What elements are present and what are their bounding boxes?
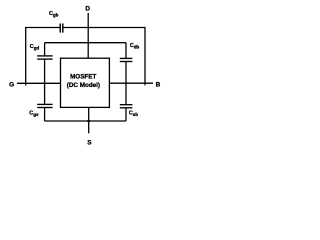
wire: gate branch vertical upper (to Cgd top plate) [44, 43, 46, 56]
MOSFET (DC Model) box [61, 58, 110, 107]
capacitor C_gs plates [37, 104, 52, 107]
svg-text:B: B [156, 81, 161, 88]
svg-text:Cgb: Cgb [49, 11, 59, 18]
svg-text:MOSFET: MOSFET [70, 73, 96, 80]
svg-text:S: S [87, 140, 92, 147]
capacitor C_sb plates [120, 105, 133, 108]
wire: drain terminal vertical [87, 13, 89, 58]
wire: gate horizontal line [17, 82, 61, 84]
wire: bottom source line [45, 120, 126, 122]
capacitor C_db plates [120, 58, 133, 61]
svg-text:Cgs: Cgs [29, 110, 39, 117]
wire: top gate-bulk line right segment [63, 28, 145, 86]
wire: top gate-bulk line left segment [26, 28, 60, 84]
wire: drain link line (Cgd to Cdb through D) [45, 42, 126, 44]
svg-text:Csb: Csb [129, 111, 138, 118]
wire: gate branch vertical middle (Cgd to Cgs) [44, 59, 46, 104]
svg-text:Cdb: Cdb [130, 43, 140, 50]
text MOSFET (DC Model) [67, 73, 100, 89]
wire: bulk branch vertical middle (Cdb to Csb) [125, 62, 127, 105]
capacitor C_gd plates [37, 56, 52, 59]
svg-text:Cgd: Cgd [30, 44, 40, 51]
svg-text:G: G [9, 81, 14, 88]
svg-text:D: D [85, 5, 90, 12]
wire: gate branch vertical lower (Cgs to bottom line) [44, 108, 46, 122]
wire: bulk branch vertical lower (Csb to bottom line) [125, 108, 127, 121]
junction dot at source/bottom line [87, 120, 90, 123]
wire: source terminal vertical [88, 107, 90, 133]
capacitor C_gb plates [60, 24, 63, 33]
wire: left vertical overhang below G line [25, 83, 27, 85]
wire: bulk branch vertical upper (to Cdb top plate) [125, 43, 127, 59]
wire: bulk horizontal line [109, 82, 153, 84]
svg-text:(DC Model): (DC Model) [67, 82, 100, 89]
